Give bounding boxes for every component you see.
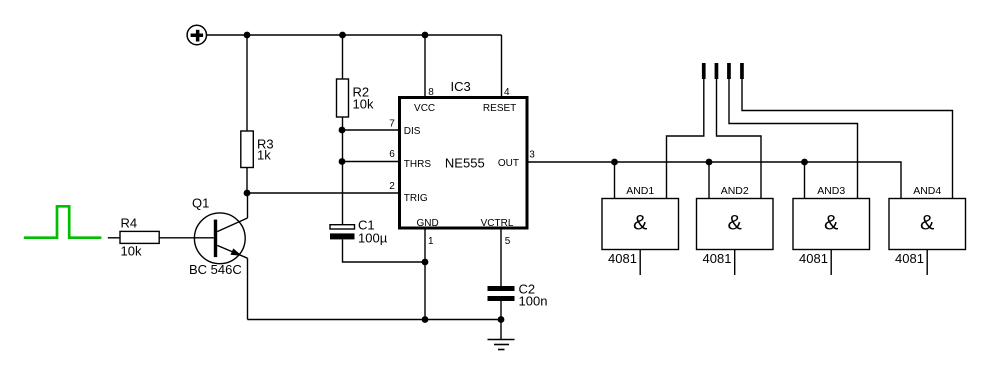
wire OUT to AND1 input (614, 162, 616, 199)
capacitor C2 (488, 282, 548, 309)
svg-text:4081: 4081 (608, 251, 637, 266)
wire bottom rail (248, 319, 502, 321)
svg-text:10k: 10k (353, 97, 374, 112)
node DIS junction (339, 127, 346, 134)
svg-text:DIS: DIS (404, 126, 421, 137)
capacitor C1 (330, 218, 388, 246)
node THRS junction (339, 158, 346, 165)
green input pulse waveform (24, 206, 102, 237)
node junction rail/VCC (422, 32, 429, 39)
wire input to R4 (108, 237, 120, 239)
svg-text:NE555: NE555 (445, 156, 485, 171)
connector pin 3 (727, 63, 731, 79)
svg-text:RESET: RESET (483, 103, 516, 114)
node OUT/AND1 (611, 159, 618, 166)
svg-text:AND4: AND4 (913, 185, 941, 197)
transistor Q1 BC546C (189, 196, 248, 278)
wire RESET pin 4 stub (501, 35, 503, 98)
svg-text:&: & (920, 211, 934, 235)
ground symbol (488, 320, 515, 350)
node TRIG junction (244, 190, 251, 197)
svg-text:4081: 4081 (703, 251, 732, 266)
wire connector pin1 to AND1 input (667, 79, 704, 199)
connector pin 4 (740, 63, 744, 79)
wire DIS pin 7 (342, 129, 399, 131)
svg-text:AND3: AND3 (817, 185, 845, 197)
wire connector pin3 to AND3 input (729, 79, 858, 199)
svg-text:3: 3 (529, 150, 535, 161)
node bottom rail/GND (422, 316, 429, 323)
wire R3 bottom to TRIG node (246, 168, 248, 194)
svg-text:10k: 10k (121, 244, 142, 259)
svg-text:GND: GND (416, 218, 438, 229)
wire GND pin 1 down to bottom rail (424, 228, 426, 320)
svg-text:7: 7 (389, 118, 395, 129)
svg-text:IC3: IC3 (451, 79, 471, 94)
wire TRIG pin 2 (247, 192, 399, 194)
node junction rail/R2 (339, 32, 346, 39)
svg-text:8: 8 (428, 87, 434, 98)
svg-text:4081: 4081 (895, 251, 924, 266)
wire AND3 output (830, 250, 832, 276)
svg-text:AND1: AND1 (626, 185, 654, 197)
svg-text:VCTRL: VCTRL (481, 218, 514, 229)
svg-text:100µ: 100µ (358, 231, 388, 246)
svg-text:1k: 1k (257, 148, 271, 163)
wire AND1 output (639, 250, 641, 276)
svg-text:OUT: OUT (498, 158, 519, 169)
wire Q1 collector to TRIG node (247, 194, 249, 219)
wire R2 top (342, 35, 344, 79)
wire connector pin2 to AND2 input (717, 79, 762, 199)
wire R2 bottom to C1 (342, 117, 344, 225)
svg-text:AND2: AND2 (721, 185, 749, 197)
node junction rail/R3 (244, 32, 251, 39)
svg-text:2: 2 (389, 181, 395, 192)
wire R4 to Q1 base (159, 237, 214, 239)
svg-text:1: 1 (428, 236, 434, 247)
svg-text:100n: 100n (519, 294, 548, 309)
svg-text:4: 4 (504, 87, 510, 98)
wire VCTRL pin 5 to C2 (500, 228, 502, 286)
svg-text:BC 546C: BC 546C (189, 262, 242, 277)
node bottom rail/ground (498, 316, 505, 323)
svg-text:TRIG: TRIG (404, 193, 428, 204)
svg-text:&: & (728, 211, 742, 235)
wire AND4 output (926, 250, 928, 276)
wire connector pin4 to AND4 input (742, 79, 953, 199)
AND gate AND3 (793, 185, 870, 266)
svg-text:R4: R4 (121, 216, 138, 231)
wire AND2 output (734, 250, 736, 276)
AND gate AND1 (602, 185, 679, 266)
AND gate AND2 (697, 185, 774, 266)
wire C2 bottom to ground (500, 301, 502, 320)
node OUT/AND2 (706, 159, 713, 166)
wire C1 bottom to GND node (343, 239, 426, 262)
svg-text:VCC: VCC (414, 103, 435, 114)
wire OUT to AND2 input (708, 162, 710, 199)
node OUT/AND3 (801, 159, 808, 166)
svg-text:Q1: Q1 (192, 196, 209, 211)
svg-text:6: 6 (389, 149, 395, 160)
svg-text:4081: 4081 (799, 251, 828, 266)
wire VCC pin 8 stub (424, 35, 426, 98)
node GND pin junction (422, 259, 429, 266)
resistor R3 (241, 131, 274, 168)
power supply symbol VCC (187, 25, 206, 44)
wire THRS pin 6 (342, 161, 399, 163)
svg-text:THRS: THRS (404, 159, 432, 170)
svg-text:&: & (633, 211, 647, 235)
wire OUT pin 3 rail (527, 162, 901, 199)
AND gate AND4 (889, 185, 966, 266)
svg-text:5: 5 (505, 236, 511, 247)
wire R3 top (246, 35, 248, 131)
wire top supply rail (206, 34, 501, 36)
resistor R4 (120, 216, 159, 259)
wire OUT to AND3 input (804, 162, 806, 199)
connector pin 2 (715, 63, 719, 79)
wire Q1 emitter to bottom rail (247, 258, 249, 319)
svg-text:&: & (824, 211, 838, 235)
op-amp/IC IC3 NE555 box (400, 79, 528, 229)
resistor R2 (337, 79, 374, 117)
connector pin 1 (702, 63, 706, 79)
